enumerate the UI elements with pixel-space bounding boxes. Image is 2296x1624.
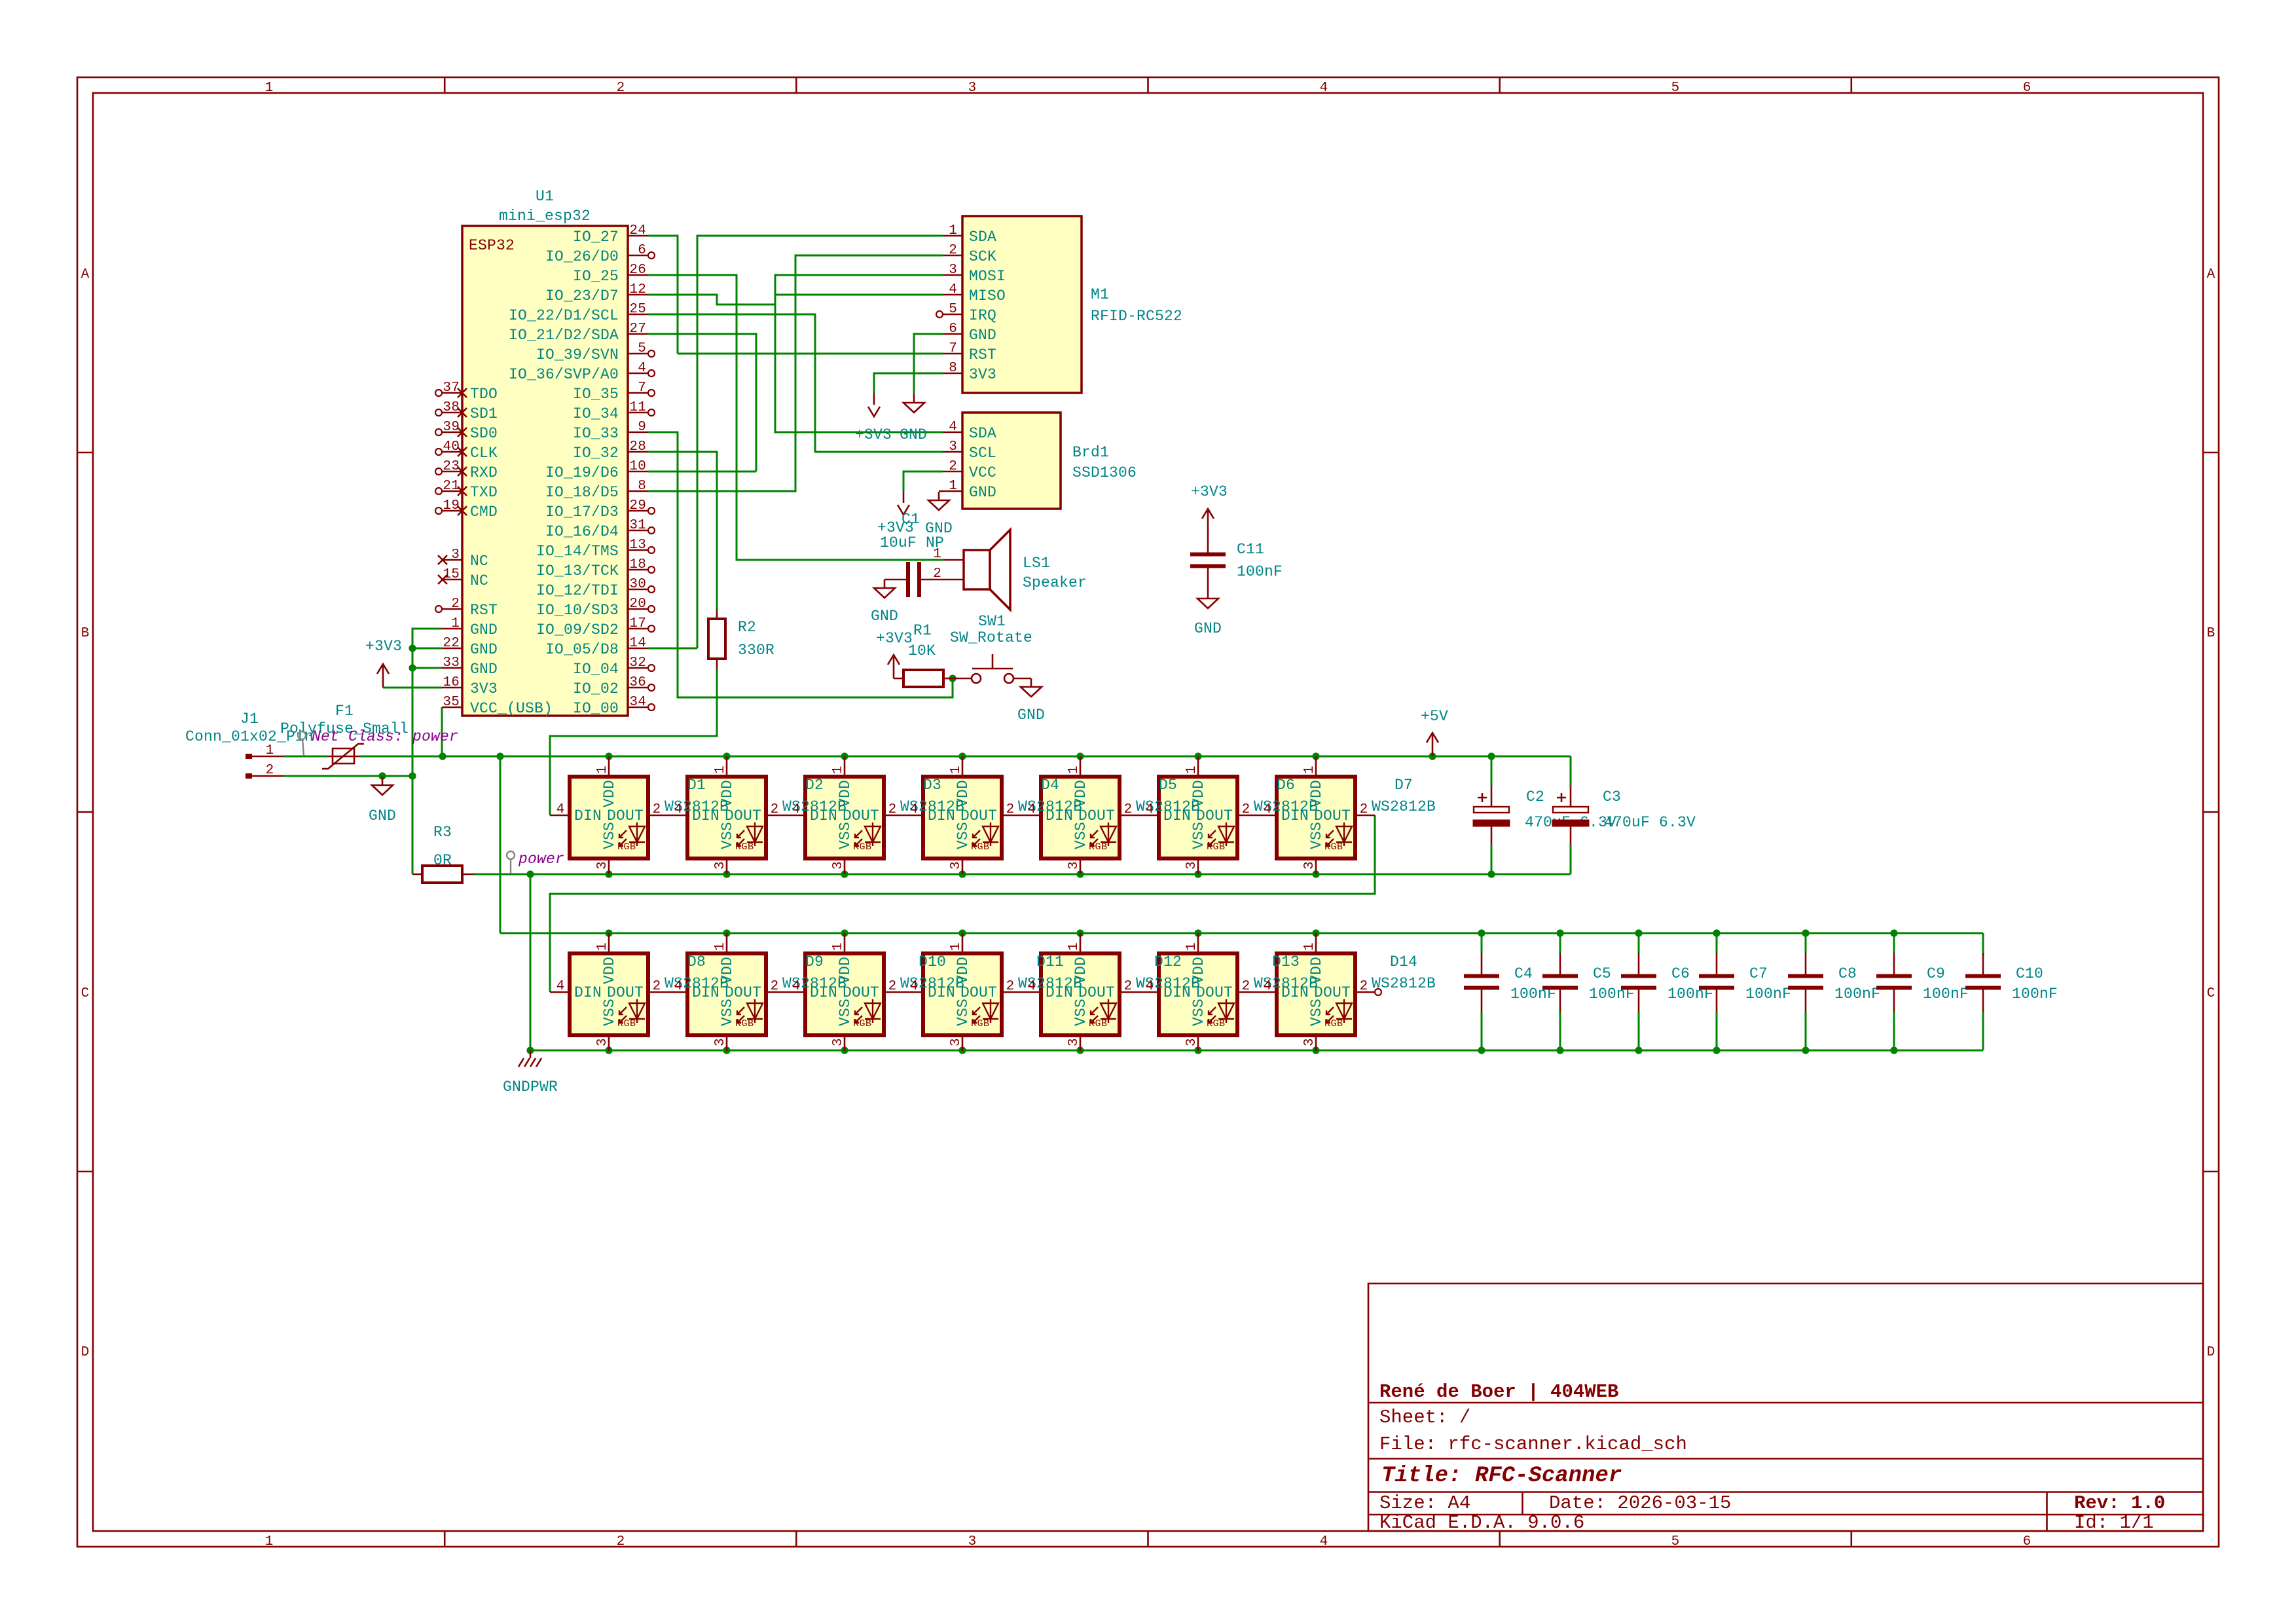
svg-text:IO_36/SVP/A0: IO_36/SVP/A0 xyxy=(509,366,619,383)
svg-text:DOUT: DOUT xyxy=(960,807,997,824)
svg-text:DOUT: DOUT xyxy=(843,984,879,1001)
junction VDD bus row2 x=930 xyxy=(605,929,612,936)
junction GNDPWR bus x=2622 xyxy=(1713,1046,1720,1054)
wire J1 pin1 to fuse xyxy=(284,756,327,758)
svg-text:1: 1 xyxy=(949,942,964,951)
svg-text:VDD: VDD xyxy=(1308,957,1325,984)
WS2812B LED D13 pins xyxy=(1197,933,1199,953)
speaker LS1 xyxy=(964,530,1010,610)
capacitor C11 100nF xyxy=(1190,531,1226,590)
WS2812B LED D9 body xyxy=(687,953,766,1035)
svg-text:13: 13 xyxy=(629,538,646,553)
svg-text:3: 3 xyxy=(1302,861,1317,870)
svg-text:330R: 330R xyxy=(738,642,774,659)
junction VDD bus row2 x=2263 xyxy=(1478,929,1485,936)
U1 pin 9 IO_33 xyxy=(628,432,648,434)
svg-text:18: 18 xyxy=(629,557,646,572)
svg-text:RGB: RGB xyxy=(971,841,990,853)
svg-text:File: rfc-scanner.kicad_sch: File: rfc-scanner.kicad_sch xyxy=(1379,1433,1687,1455)
WS2812B LED D7 pins xyxy=(1315,756,1317,777)
junction +5V bus x=2188 xyxy=(1429,752,1436,760)
svg-text:IO_09/SD2: IO_09/SD2 xyxy=(536,621,619,638)
svg-text:5: 5 xyxy=(949,302,957,317)
svg-text:MOSI: MOSI xyxy=(969,268,1006,285)
svg-text:RST: RST xyxy=(470,602,498,619)
junction VSS bus row1 x=1830 xyxy=(1194,870,1201,877)
U1 pin 12 IO_23/D7 xyxy=(628,294,648,296)
Brd1 pin 1 GND xyxy=(943,490,962,492)
svg-text:C8: C8 xyxy=(1838,965,1857,982)
svg-text:GND: GND xyxy=(470,661,498,678)
svg-text:3: 3 xyxy=(1184,861,1199,870)
junction R1/SW1 node xyxy=(949,674,956,682)
junction GNDPWR bus x=2263 xyxy=(1478,1046,1485,1054)
U1 pin 6 IO_26/D0 xyxy=(628,255,648,257)
wire U1 GND33 xyxy=(412,667,442,669)
svg-text:VSS: VSS xyxy=(955,999,972,1026)
svg-text:4: 4 xyxy=(556,802,565,817)
svg-text:4: 4 xyxy=(638,361,646,376)
WS2812B LED D14 diode glyph xyxy=(1326,999,1352,1023)
svg-text:1: 1 xyxy=(831,766,846,774)
junction VDD bus row2 x=1650 xyxy=(1076,929,1084,936)
svg-text:33: 33 xyxy=(443,655,460,671)
junction VDD bus row2 x=1110 xyxy=(723,929,730,936)
svg-text:2: 2 xyxy=(1006,979,1015,994)
U1 pin 2 RST xyxy=(442,608,462,610)
WS2812B LED D1 diode glyph xyxy=(619,822,645,846)
svg-text:D4: D4 xyxy=(1041,777,1059,794)
svg-text:SSD1306: SSD1306 xyxy=(1072,464,1137,481)
+5V power symbol xyxy=(1427,733,1438,756)
capacitor C9 100nF xyxy=(1876,953,1912,1012)
svg-text:VSS: VSS xyxy=(1072,999,1089,1026)
svg-text:2: 2 xyxy=(1124,979,1133,994)
svg-text:Speaker: Speaker xyxy=(1023,574,1087,591)
svg-text:D6: D6 xyxy=(1277,777,1295,794)
svg-text:D1: D1 xyxy=(687,777,706,794)
U1 pin 10 IO_19/D6 xyxy=(628,471,648,473)
svg-text:4: 4 xyxy=(792,802,801,817)
U1 pin 19 CMD xyxy=(442,510,462,512)
title block xyxy=(1368,1283,2203,1531)
U1 pin 24 IO_27 xyxy=(628,235,648,237)
svg-text:Rev: 1.0: Rev: 1.0 xyxy=(2074,1492,2165,1514)
U1 pin 14 IO_05/D8 xyxy=(628,648,648,650)
U1 pin 34 IO_00 xyxy=(628,707,648,709)
U1 pin 1 GND xyxy=(442,628,462,630)
svg-text:IO_02: IO_02 xyxy=(573,680,619,697)
junction VSS bus row1 x=810 xyxy=(526,870,534,877)
svg-text:Brd1: Brd1 xyxy=(1072,444,1109,461)
wire +5V bus xyxy=(359,756,1571,758)
wire R3 to VSS bus row1 xyxy=(474,874,1571,876)
junction +5V bus x=1470 xyxy=(958,752,966,760)
svg-text:RGB: RGB xyxy=(1324,841,1343,853)
+3V3 symbol at Brd1 VCC xyxy=(898,491,909,515)
svg-text:D5: D5 xyxy=(1159,777,1177,794)
svg-text:21: 21 xyxy=(443,479,460,494)
WS2812B LED D12 body xyxy=(1041,953,1120,1035)
svg-text:C: C xyxy=(2207,986,2215,1001)
svg-text:19: 19 xyxy=(443,498,460,513)
svg-text:DOUT: DOUT xyxy=(725,807,761,824)
WS2812B LED D7 body xyxy=(1277,777,1355,858)
svg-text:22: 22 xyxy=(443,636,460,651)
svg-text:D13: D13 xyxy=(1272,953,1300,970)
svg-text:GND: GND xyxy=(969,327,996,344)
svg-text:1: 1 xyxy=(1066,766,1082,774)
svg-text:D9: D9 xyxy=(805,953,824,970)
svg-text:CMD: CMD xyxy=(470,504,498,521)
wire VCC_(USB) to +5V xyxy=(441,707,443,756)
svg-text:D11: D11 xyxy=(1036,953,1064,970)
junction GND symbol tap xyxy=(378,772,386,779)
U1 pin 31 IO_16/D4 xyxy=(628,530,648,532)
svg-text:VDD: VDD xyxy=(837,957,854,984)
U1 pin 29 IO_17/D3 xyxy=(628,510,648,512)
svg-text:3V3: 3V3 xyxy=(470,680,498,697)
svg-text:VDD: VDD xyxy=(1190,780,1207,807)
svg-text:DIN: DIN xyxy=(928,807,955,824)
svg-text:C10: C10 xyxy=(2016,965,2043,982)
U1 pin 35 VCC_(USB) xyxy=(442,707,462,709)
WS2812B LED D8 diode glyph xyxy=(619,999,645,1023)
svg-text:VDD: VDD xyxy=(1308,780,1325,807)
svg-text:8: 8 xyxy=(638,479,646,494)
svg-text:34: 34 xyxy=(629,695,646,710)
svg-text:D10: D10 xyxy=(919,953,946,970)
svg-text:TDO: TDO xyxy=(470,386,498,403)
svg-text:RGB: RGB xyxy=(735,841,754,853)
junction GNDPWR bus x=1110 xyxy=(723,1046,730,1054)
svg-text:2: 2 xyxy=(1242,979,1250,994)
svg-text:2: 2 xyxy=(1360,979,1368,994)
svg-text:1: 1 xyxy=(266,743,274,758)
wire C10 right leg xyxy=(1982,933,1984,955)
svg-text:DIN: DIN xyxy=(1046,807,1073,824)
svg-text:29: 29 xyxy=(629,498,646,513)
U1 pin 8 IO_18/D5 xyxy=(628,490,648,492)
svg-text:2: 2 xyxy=(1124,802,1133,817)
svg-text:3: 3 xyxy=(968,1534,977,1549)
junction +5V bus x=764 xyxy=(496,752,503,760)
svg-text:IO_04: IO_04 xyxy=(573,661,619,678)
svg-text:C1: C1 xyxy=(902,511,920,528)
svg-text:Sheet: /: Sheet: / xyxy=(1379,1407,1470,1428)
junction VDD bus row2 x=2503 xyxy=(1635,929,1642,936)
svg-text:IO_16/D4: IO_16/D4 xyxy=(545,523,619,540)
junction VSS bus row1 x=1110 xyxy=(723,870,730,877)
svg-text:12: 12 xyxy=(629,282,646,297)
junction GNDPWR bus x=930 xyxy=(605,1046,612,1054)
+3V3 symbol at R1 xyxy=(888,655,900,678)
fuse F1 Polyfuse_Small xyxy=(322,744,364,769)
svg-text:5: 5 xyxy=(1671,81,1680,96)
svg-text:100nF: 100nF xyxy=(1745,986,1791,1003)
wire IO_19/D6 xyxy=(648,471,756,473)
svg-text:A: A xyxy=(2207,267,2215,282)
svg-text:1: 1 xyxy=(713,766,728,774)
WS2812B LED D4 diode glyph xyxy=(973,822,998,846)
junction +5V bus x=1830 xyxy=(1194,752,1201,760)
svg-text:LS1: LS1 xyxy=(1023,555,1050,572)
svg-text:IO_33: IO_33 xyxy=(573,425,619,442)
svg-text:B: B xyxy=(2207,626,2215,641)
svg-text:1: 1 xyxy=(1302,766,1317,774)
U1 pin 22 GND xyxy=(442,648,462,650)
svg-text:3: 3 xyxy=(595,1038,610,1046)
junction VSS bus row1 x=930 xyxy=(605,870,612,877)
svg-text:C5: C5 xyxy=(1593,965,1611,982)
svg-text:2: 2 xyxy=(771,979,779,994)
junction VDD bus row2 x=1470 xyxy=(958,929,966,936)
svg-text:RGB: RGB xyxy=(1207,1018,1226,1029)
svg-text:C2: C2 xyxy=(1526,788,1544,805)
U1 pin 40 CLK xyxy=(442,451,462,453)
WS2812B LED D6 pins xyxy=(1197,756,1199,777)
svg-text:GND: GND xyxy=(1017,707,1045,724)
junction VDD bus row2 x=2622 xyxy=(1713,929,1720,936)
svg-text:+3V3: +3V3 xyxy=(855,426,892,443)
wire M1 SCK to IO_18/D5 xyxy=(648,255,943,491)
svg-text:R1: R1 xyxy=(913,622,932,639)
svg-text:39: 39 xyxy=(443,420,460,435)
svg-text:25: 25 xyxy=(629,302,646,317)
svg-text:C6: C6 xyxy=(1671,965,1690,982)
WS2812B LED D5 diode glyph xyxy=(1091,822,1116,846)
svg-text:VSS: VSS xyxy=(955,822,972,849)
svg-text:0R: 0R xyxy=(433,852,452,869)
U1 pin 25 IO_22/D1/SCL xyxy=(628,314,648,316)
resistor R3 0R xyxy=(412,874,422,876)
junction VDD bus row2 x=2383 xyxy=(1556,929,1563,936)
svg-text:VSS: VSS xyxy=(719,822,736,849)
svg-text:6: 6 xyxy=(638,243,646,258)
svg-text:IO_35: IO_35 xyxy=(573,386,619,403)
ESP32 module U1 mini_esp32 xyxy=(462,226,628,716)
svg-text:DIN: DIN xyxy=(1281,807,1309,824)
svg-text:GNDPWR: GNDPWR xyxy=(503,1079,558,1096)
svg-text:VDD: VDD xyxy=(719,780,736,807)
svg-text:DOUT: DOUT xyxy=(607,984,644,1001)
svg-text:DIN: DIN xyxy=(692,984,720,1001)
svg-text:RGB: RGB xyxy=(971,1018,990,1029)
svg-text:VSS: VSS xyxy=(601,999,618,1026)
svg-text:C11: C11 xyxy=(1237,541,1264,558)
svg-text:3: 3 xyxy=(949,1038,964,1046)
U1 pin 16 3V3 xyxy=(442,687,462,689)
svg-text:1: 1 xyxy=(265,81,274,96)
svg-text:SW_Rotate: SW_Rotate xyxy=(950,629,1032,646)
junction GND net at U1 pin 33 xyxy=(409,664,416,671)
svg-text:3V3: 3V3 xyxy=(969,366,996,383)
WS2812B LED D11 pins xyxy=(962,933,964,953)
svg-text:R2: R2 xyxy=(738,619,756,636)
svg-text:IO_12/TDI: IO_12/TDI xyxy=(536,582,619,599)
wire C10 right leg low xyxy=(1982,1012,1984,1050)
svg-text:31: 31 xyxy=(629,518,646,533)
svg-text:DIN: DIN xyxy=(928,984,955,1001)
svg-text:RGB: RGB xyxy=(853,1018,872,1029)
svg-text:3: 3 xyxy=(949,861,964,870)
junction VSS bus row1 x=1290 xyxy=(841,870,848,877)
svg-text:A: A xyxy=(81,267,90,282)
svg-text:9: 9 xyxy=(638,420,646,435)
svg-text:4: 4 xyxy=(910,979,919,994)
WS2812B LED D13 diode glyph xyxy=(1209,999,1234,1023)
U1 pin 4 IO_36/SVP/A0 xyxy=(628,373,648,375)
WS2812B LED D6 diode glyph xyxy=(1209,822,1234,846)
svg-text:3: 3 xyxy=(949,439,957,454)
Brd1 pin 4 SDA xyxy=(943,432,962,434)
svg-text:IO_25: IO_25 xyxy=(573,268,619,285)
svg-text:2: 2 xyxy=(653,979,661,994)
WS2812B LED D8 body xyxy=(570,953,648,1035)
svg-text:mini_esp32: mini_esp32 xyxy=(499,208,591,225)
svg-text:RGB: RGB xyxy=(1089,841,1108,853)
svg-text:VSS: VSS xyxy=(1190,822,1207,849)
LS1 pin 2 xyxy=(944,579,964,581)
svg-text:11: 11 xyxy=(629,400,646,415)
net class directive power label xyxy=(510,859,511,874)
svg-text:SCK: SCK xyxy=(969,248,996,265)
junction +5V bus x=676 xyxy=(439,752,446,760)
wire row2 VDD bus xyxy=(500,932,1983,934)
wire D7 DOUT wrap to D8 DIN xyxy=(550,815,1375,992)
svg-text:D7: D7 xyxy=(1394,777,1413,794)
svg-text:28: 28 xyxy=(629,439,646,454)
M1 pin 7 RST xyxy=(943,353,962,355)
U1 pin 28 IO_32 xyxy=(628,451,648,453)
svg-text:VDD: VDD xyxy=(601,780,618,807)
svg-text:3: 3 xyxy=(713,861,728,870)
svg-text:3: 3 xyxy=(1066,1038,1082,1046)
wire IO_32 to R2 xyxy=(648,452,717,609)
svg-text:4: 4 xyxy=(792,979,801,994)
svg-text:470uF 6.3V: 470uF 6.3V xyxy=(1604,814,1696,831)
wire U1 GND22 xyxy=(412,648,442,650)
svg-text:SD1: SD1 xyxy=(470,405,498,422)
junction GNDPWR bus x=810 xyxy=(526,1046,534,1054)
svg-text:J1: J1 xyxy=(240,710,259,728)
svg-text:8: 8 xyxy=(949,361,957,376)
wire J1 pin2 GND xyxy=(284,775,412,777)
junction GND net at J1 pin 2 xyxy=(409,772,416,779)
junction GNDPWR bus x=2758 xyxy=(1802,1046,1809,1054)
M1 pin 1 SDA xyxy=(943,235,962,237)
svg-text:VDD: VDD xyxy=(955,780,972,807)
capacitor C8 100nF xyxy=(1788,953,1823,1012)
svg-text:F1: F1 xyxy=(335,703,354,720)
svg-text:4: 4 xyxy=(949,420,957,435)
U1 pin 33 GND xyxy=(442,667,462,669)
svg-text:3: 3 xyxy=(713,1038,728,1046)
GND symbol at C1 xyxy=(874,580,895,598)
wire IO_33 to R1/SW1 node xyxy=(648,432,953,697)
svg-text:RST: RST xyxy=(969,346,996,363)
M1 pin 4 MISO xyxy=(943,294,962,296)
svg-text:IO_17/D3: IO_17/D3 xyxy=(545,504,619,521)
U1 pin 36 IO_02 xyxy=(628,687,648,689)
svg-text:1: 1 xyxy=(1184,942,1199,951)
svg-text:+3V3: +3V3 xyxy=(1191,483,1228,500)
wire M1 MOSI to Brd1 SDA xyxy=(775,275,943,432)
svg-text:René de Boer | 404WEB: René de Boer | 404WEB xyxy=(1379,1381,1618,1403)
wire +5V drop to row2 xyxy=(500,756,501,933)
wire C3 top xyxy=(1570,756,1572,786)
svg-text:GND: GND xyxy=(470,621,498,638)
svg-text:IO_05/D8: IO_05/D8 xyxy=(545,641,619,658)
svg-text:C7: C7 xyxy=(1749,965,1768,982)
capacitor C4 100nF xyxy=(1464,953,1499,1012)
svg-text:3: 3 xyxy=(949,263,957,278)
svg-text:RFID-RC522: RFID-RC522 xyxy=(1091,308,1182,325)
svg-text:DOUT: DOUT xyxy=(1078,807,1115,824)
svg-text:DIN: DIN xyxy=(1046,984,1073,1001)
svg-text:RXD: RXD xyxy=(470,464,498,481)
U1 pin 39 SD0 xyxy=(442,432,462,434)
unconnected D14 DOUT xyxy=(1375,989,1381,995)
svg-text:14: 14 xyxy=(629,636,646,651)
svg-text:Date: 2026-03-15: Date: 2026-03-15 xyxy=(1549,1492,1731,1514)
svg-text:4: 4 xyxy=(1028,979,1036,994)
U1 pin 15 NC xyxy=(442,579,462,581)
svg-text:VDD: VDD xyxy=(1072,957,1089,984)
svg-text:24: 24 xyxy=(629,223,646,238)
junction VDD bus row2 x=2010 xyxy=(1312,929,1319,936)
WS2812B LED D13 body xyxy=(1159,953,1237,1035)
svg-text:1: 1 xyxy=(265,1534,274,1549)
capacitor C1 10uF NP xyxy=(884,562,944,597)
M1 pin 2 SCK xyxy=(943,255,962,257)
wire C2 bottom xyxy=(1491,845,1493,874)
svg-text:32: 32 xyxy=(629,655,646,671)
WS2812B LED D12 pins xyxy=(1080,933,1082,953)
svg-text:RGB: RGB xyxy=(1089,1018,1108,1029)
svg-text:IO_14/TMS: IO_14/TMS xyxy=(536,543,619,560)
svg-text:1: 1 xyxy=(831,942,846,951)
U1 pin 21 TXD xyxy=(442,490,462,492)
svg-text:VSS: VSS xyxy=(601,822,618,849)
svg-text:VSS: VSS xyxy=(719,999,736,1026)
svg-text:M1: M1 xyxy=(1091,286,1109,303)
svg-text:38: 38 xyxy=(443,400,460,415)
svg-text:IO_23/D7: IO_23/D7 xyxy=(545,287,619,304)
junction GNDPWR bus x=2893 xyxy=(1890,1046,1897,1054)
svg-text:35: 35 xyxy=(443,695,460,710)
Brd1 pin 2 VCC xyxy=(943,471,962,473)
svg-text:D8: D8 xyxy=(687,953,706,970)
GND symbol at J1 pin 2 xyxy=(372,777,393,795)
svg-text:IO_21/D2/SDA: IO_21/D2/SDA xyxy=(509,327,619,344)
svg-text:IO_00: IO_00 xyxy=(573,700,619,717)
junction GNDPWR bus x=2383 xyxy=(1556,1046,1563,1054)
wire IO_05/D8 xyxy=(648,648,697,650)
svg-text:DOUT: DOUT xyxy=(1196,984,1233,1001)
junction GNDPWR bus x=1650 xyxy=(1076,1046,1084,1054)
wire Brd1 VCC xyxy=(903,471,943,491)
svg-text:SCL: SCL xyxy=(969,445,996,462)
svg-text:2: 2 xyxy=(888,979,897,994)
svg-text:4: 4 xyxy=(1264,802,1272,817)
svg-text:1: 1 xyxy=(1184,766,1199,774)
svg-text:DOUT: DOUT xyxy=(843,807,879,824)
svg-text:1: 1 xyxy=(595,766,610,774)
wire M1 GND xyxy=(914,334,943,394)
M1 pin 3 MOSI xyxy=(943,274,962,276)
svg-text:Size: A4: Size: A4 xyxy=(1379,1492,1470,1514)
